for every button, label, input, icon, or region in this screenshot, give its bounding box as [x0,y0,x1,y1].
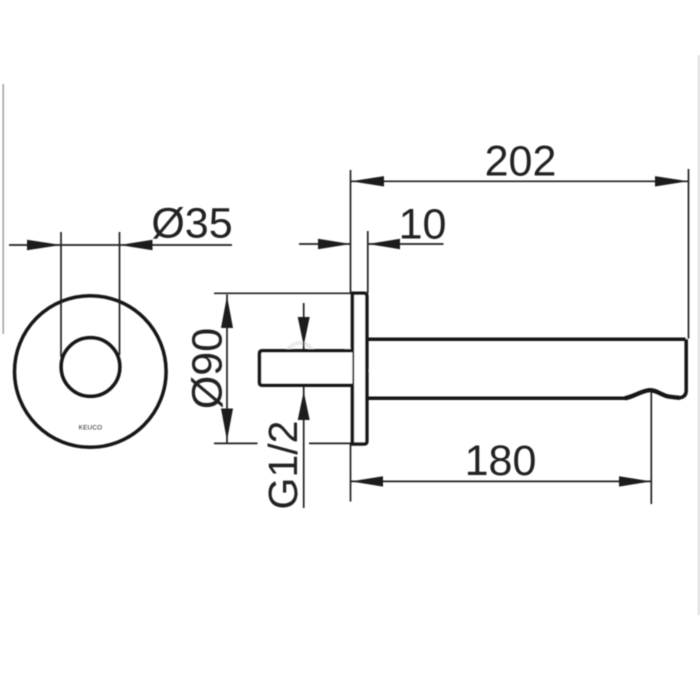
dim Ø90: top extension line [214,292,352,294]
watermark ghost mark [345,350,368,372]
right edge scan artifact line [698,55,700,615]
dim Ø90: top arrowhead (points up) [221,296,233,328]
dim 180: dimension line [351,480,651,482]
dim 180: right arrowhead [619,476,651,486]
svg-text:G1/2: G1/2 [260,421,306,510]
side view: wall flange plate [352,293,367,444]
left edge scan artifact line [2,84,4,334]
dim G1/2: dimension line [303,303,305,508]
dim 202: dimension line [351,180,688,182]
dim 180: extension line right (outlet) [650,392,652,505]
side view: spout tube right end edge [678,339,686,398]
dim 10: right tail line [368,243,444,245]
dim 202: extension line right (spout tip) [688,169,690,339]
dim 10: right arrowhead (points left) [368,239,400,249]
dim 10: extension line (flange front face) [367,231,369,293]
svg-text:180: 180 [465,437,537,485]
dim G1/2: upper arrowhead (points down) [298,317,310,346]
dim Ø35: extension line right [119,232,121,355]
front view: outer escutcheon circle [15,296,167,448]
dim Ø90: bottom arrowhead (points down) [221,409,233,441]
dim Ø90: bottom extension line (gap for G1/2 text) [214,442,352,444]
svg-text:202: 202 [485,138,557,186]
dim 180: left arrowhead [351,476,383,486]
dim Ø35: extension line left [60,232,62,357]
side view: spout tube top edge [367,337,686,341]
side view: outlet lip curve [625,390,680,398]
dim 10: left arrowhead (points right) [318,239,351,249]
dim G1/2: lower arrowhead (points up) [298,392,310,421]
dim 202: left arrowhead [351,176,384,186]
svg-text:10: 10 [399,201,447,249]
svg-text:KEUCO: KEUCO [79,425,103,432]
dim 202: right arrowhead [655,176,688,186]
dim Ø35: dimension line [9,244,232,246]
side view: spout tube bottom edge [367,396,627,400]
dim Ø35: left arrowhead [27,240,61,250]
dim 180: extension line left (wall plane, below flange) [350,444,352,502]
watermark ghost circle [286,343,314,371]
side view: G1/2 threaded nipple [260,351,353,386]
front view: inner spout hole circle [61,338,120,397]
dim 10: left tail line [299,243,351,245]
svg-text:Ø90: Ø90 [184,328,232,409]
dim Ø90: dimension line [226,295,228,443]
svg-text:Ø35: Ø35 [151,200,232,248]
dim Ø35: right arrowhead [120,240,153,250]
dim 202: extension line left (wall plane) [350,170,352,293]
